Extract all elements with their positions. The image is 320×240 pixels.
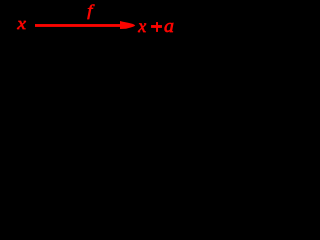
svg-text:x: x — [137, 16, 146, 36]
svg-text:a: a — [164, 17, 174, 37]
svg-text:x: x — [16, 14, 27, 33]
